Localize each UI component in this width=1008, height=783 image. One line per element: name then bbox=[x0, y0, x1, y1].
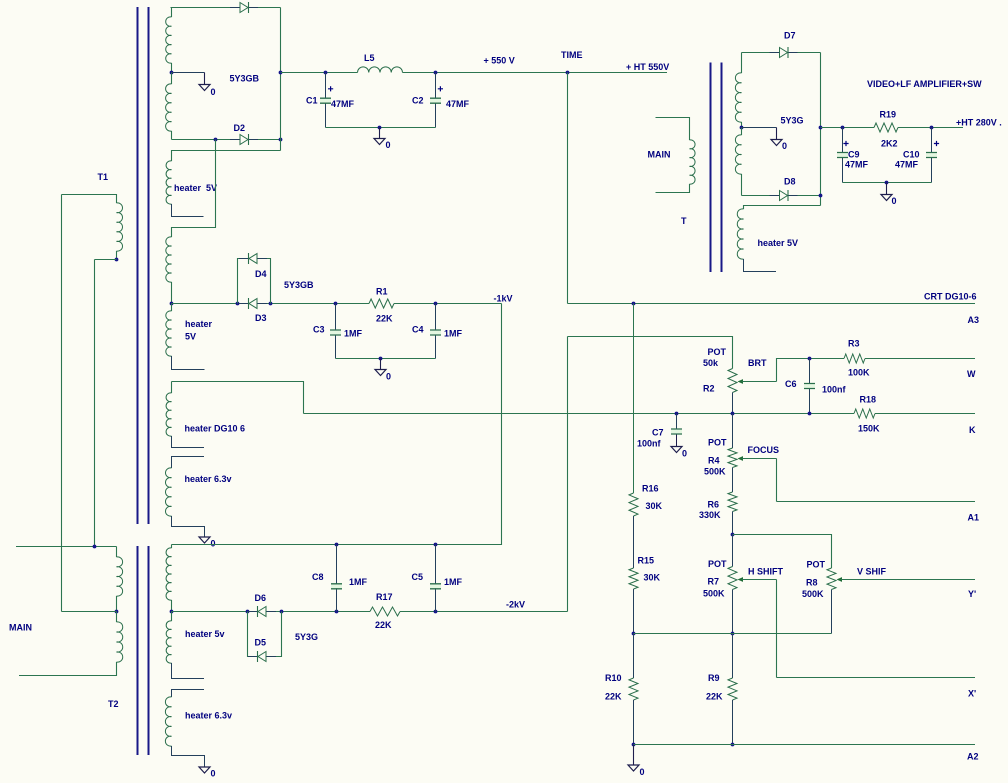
wire TIME net vertical bbox=[567, 73, 569, 304]
wire heater 5V bottom lead bbox=[172, 204, 204, 217]
wire heater DG10-6 leads bbox=[171, 382, 173, 394]
svg-text:C3: C3 bbox=[313, 325, 325, 335]
winding HT 550V secondary upper bbox=[166, 17, 172, 63]
wire MAIN primary bottom bbox=[656, 184, 690, 193]
svg-text:V SHIF: V SHIF bbox=[857, 567, 887, 577]
capacitor C4 leads bbox=[435, 304, 437, 331]
wire D2 branch down to -1kV winding bbox=[172, 140, 216, 238]
node T1 primary tap bbox=[115, 258, 119, 262]
capacitor C10 bbox=[926, 153, 937, 156]
resistor R6 bbox=[728, 492, 737, 512]
ground 0 at 550V center tap bbox=[199, 85, 210, 91]
node T2 primary tap bbox=[115, 610, 119, 614]
svg-text:30K: 30K bbox=[644, 573, 661, 583]
svg-text:5Y3GB: 5Y3GB bbox=[284, 280, 314, 290]
svg-text:1MF: 1MF bbox=[444, 577, 463, 587]
diode D5 bbox=[248, 656, 276, 658]
wire 5Y3GB cathode rail bbox=[280, 8, 282, 151]
wire C3 C4 ground row bbox=[336, 358, 436, 360]
wire R4 to R6 bbox=[732, 468, 734, 493]
wire D5 parallel branch bbox=[248, 612, 258, 657]
svg-text:150K: 150K bbox=[858, 424, 880, 434]
svg-text:Y': Y' bbox=[968, 589, 976, 599]
svg-text:0: 0 bbox=[782, 141, 787, 151]
svg-text:VIDEO+LF AMPLIFIER+SW: VIDEO+LF AMPLIFIER+SW bbox=[867, 79, 982, 89]
svg-text:R10: R10 bbox=[605, 673, 622, 683]
diode D3 bbox=[239, 303, 267, 305]
svg-text:0: 0 bbox=[386, 372, 391, 382]
node C3 top bbox=[334, 302, 338, 306]
winding HT 550V secondary lower bbox=[166, 84, 172, 131]
wire T2 tap row bbox=[62, 611, 117, 613]
svg-text:C4: C4 bbox=[412, 325, 424, 335]
svg-text:TIME: TIME bbox=[561, 50, 583, 60]
wire -2kV riser bbox=[567, 337, 569, 612]
svg-text:0: 0 bbox=[640, 767, 645, 777]
inductor L5 bbox=[358, 67, 403, 73]
potentiometer R2 bbox=[728, 369, 737, 393]
svg-text:BRT: BRT bbox=[748, 358, 767, 368]
capacitor C5 leads bbox=[435, 545, 437, 584]
potentiometer R2 wiper bbox=[738, 379, 744, 384]
node HT secondary center tap bbox=[170, 71, 174, 75]
node C6 top bbox=[808, 357, 812, 361]
wire T2 secondary tap lead bbox=[171, 600, 173, 612]
capacitor C3 leads bbox=[335, 304, 337, 331]
wire R15 bottom lead bbox=[633, 589, 635, 634]
capacitor C10 polarity + bbox=[934, 141, 939, 146]
node T2 secondary tap bbox=[170, 610, 174, 614]
svg-text:D7: D7 bbox=[784, 31, 796, 41]
node R4 chain top bbox=[731, 412, 735, 416]
node C9 C10 ground bbox=[885, 181, 889, 185]
wire +HT280 rail left bbox=[821, 127, 875, 129]
node C10 top bbox=[930, 126, 934, 130]
ground 0 at C3 C4 bbox=[380, 359, 382, 370]
svg-text:heater 5V: heater 5V bbox=[758, 238, 799, 248]
diode D2 (5Y3GB plate 2) bbox=[230, 139, 258, 141]
wire R10 bottom lead bbox=[633, 700, 635, 745]
svg-text:R16: R16 bbox=[642, 484, 659, 494]
potentiometer R8 wiper bbox=[837, 577, 843, 582]
svg-text:heater 6.3v: heater 6.3v bbox=[185, 711, 232, 721]
wire heater right bottom lead bbox=[744, 259, 777, 272]
potentiometer R4 bbox=[728, 448, 737, 468]
wire D4 parallel branch bbox=[238, 259, 249, 304]
wire heater 6.3v second bottom lead bbox=[172, 746, 205, 767]
svg-text:500K: 500K bbox=[802, 589, 824, 599]
capacitor C5 bbox=[430, 585, 441, 588]
wire left rail from T1 top bbox=[61, 195, 63, 612]
node TIME branch bbox=[566, 71, 570, 75]
potentiometer R7 wiper bbox=[738, 577, 744, 582]
node C1 top bbox=[324, 71, 328, 75]
svg-text:+ 550 V: + 550 V bbox=[484, 56, 515, 66]
svg-text:0: 0 bbox=[211, 87, 216, 97]
wire left rail from T1 tap bbox=[94, 260, 96, 547]
wire R10 top lead bbox=[633, 634, 635, 679]
svg-text:5Y3G: 5Y3G bbox=[295, 632, 318, 642]
capacitor C9 polarity + bbox=[843, 141, 848, 146]
wire heater second leads bbox=[171, 304, 173, 312]
node C5 top bbox=[434, 543, 438, 547]
diode D4 bbox=[239, 258, 267, 260]
node 550V output bbox=[279, 71, 283, 75]
winding T1 primary bbox=[117, 203, 123, 251]
svg-text:C5: C5 bbox=[412, 572, 424, 582]
resistor R17 bbox=[370, 607, 400, 616]
svg-text:W: W bbox=[967, 369, 976, 379]
wire FOCUS wiper to A1 row bbox=[776, 459, 778, 502]
wire T2 secondary lower leads bbox=[171, 612, 173, 622]
svg-text:R2: R2 bbox=[703, 384, 715, 394]
wire T1 tap to left rail bbox=[95, 259, 117, 261]
svg-text:D6: D6 bbox=[255, 593, 267, 603]
node -1kV winding output bbox=[170, 302, 174, 306]
svg-text:0: 0 bbox=[386, 140, 391, 150]
svg-text:D4: D4 bbox=[255, 269, 267, 279]
node MAIN junction bbox=[93, 545, 97, 549]
wire A1 row bbox=[777, 501, 976, 503]
wire R9 bottom lead bbox=[732, 700, 734, 745]
wire cathode to heater 5V right bbox=[744, 206, 821, 210]
svg-text:D2: D2 bbox=[234, 123, 246, 133]
wire K row right bbox=[875, 413, 975, 415]
svg-text:MAIN: MAIN bbox=[648, 150, 671, 160]
node C3 C4 ground bbox=[379, 357, 383, 361]
ground 0 at HT280 tap bbox=[771, 140, 782, 146]
svg-text:C9: C9 bbox=[848, 150, 860, 160]
capacitor C2 leads bbox=[435, 73, 437, 99]
svg-text:C6: C6 bbox=[785, 379, 797, 389]
wire HT secondary top lead bbox=[171, 8, 173, 18]
node C8 bottom bbox=[335, 610, 339, 614]
wire -2kV row left bbox=[172, 611, 371, 613]
node D3 anode bbox=[236, 302, 240, 306]
svg-text:+ HT 550V: + HT 550V bbox=[626, 62, 669, 72]
resistor R9 bbox=[728, 678, 737, 700]
diode D1 (5Y3GB plate 1) bbox=[230, 7, 258, 9]
wire W row right bbox=[865, 358, 975, 360]
svg-text:C7: C7 bbox=[652, 428, 664, 438]
wire secondary lower leads bbox=[171, 73, 173, 85]
wire cathode to heater 5V winding bbox=[172, 151, 281, 162]
svg-text:CRT DG10-6: CRT DG10-6 bbox=[924, 292, 977, 302]
wire -2kV row right bbox=[400, 611, 568, 613]
svg-text:-1kV: -1kV bbox=[494, 294, 513, 304]
wire heater DG10-6 top feed bbox=[172, 382, 304, 414]
resistor R15 bbox=[629, 568, 638, 589]
svg-text:heater 5V: heater 5V bbox=[174, 183, 217, 193]
wire X'' row bbox=[777, 677, 976, 679]
resistor R1 bbox=[369, 299, 394, 308]
capacitor C3 bbox=[330, 331, 341, 334]
wire top anode row bbox=[171, 7, 281, 9]
potentiometer R4 wiper bbox=[738, 456, 744, 461]
node D6 cathode bbox=[280, 610, 284, 614]
svg-text:47MF: 47MF bbox=[895, 160, 919, 170]
wire -1kV winding bottom lead bbox=[171, 282, 173, 304]
svg-text:5Y3GB: 5Y3GB bbox=[230, 74, 260, 84]
svg-text:22K: 22K bbox=[706, 692, 723, 702]
wire R16 chain bbox=[633, 304, 635, 494]
wire heater 6.3v bottom lead bbox=[172, 516, 205, 537]
resistor R10 bbox=[629, 678, 638, 700]
svg-text:R3: R3 bbox=[848, 339, 860, 349]
node R15 R10 junction bbox=[632, 632, 636, 636]
node C8 top bbox=[335, 543, 339, 547]
node R9 A2 junction bbox=[731, 743, 735, 747]
node C5 bottom bbox=[434, 610, 438, 614]
svg-text:0: 0 bbox=[682, 449, 687, 459]
svg-text:47MF: 47MF bbox=[446, 99, 470, 109]
svg-text:A1: A1 bbox=[968, 513, 980, 523]
capacitor C4 bbox=[430, 331, 441, 334]
node D2 anode branch bbox=[214, 138, 218, 142]
svg-text:+HT 280V .: +HT 280V . bbox=[956, 118, 1002, 128]
winding T2 primary lower bbox=[117, 622, 123, 662]
wire HT280 secondary tap lead bbox=[741, 122, 743, 128]
svg-text:D5: D5 bbox=[255, 638, 267, 648]
node C9 top bbox=[841, 126, 845, 130]
wire T1 primary bottom lead bbox=[116, 251, 118, 260]
svg-text:MAIN: MAIN bbox=[9, 623, 32, 633]
wire +550V rail bbox=[281, 72, 358, 74]
winding HT280 secondary lower bbox=[735, 135, 741, 174]
node HT280 center tap bbox=[740, 126, 744, 130]
wire T1 primary top bbox=[62, 195, 117, 204]
svg-text:R19: R19 bbox=[880, 110, 897, 120]
winding heater 6.3v second bbox=[165, 697, 171, 746]
ground 0 at C9 C10 bbox=[886, 183, 888, 195]
capacitor C9 bbox=[837, 153, 848, 156]
capacitor C8 bbox=[331, 585, 342, 588]
resistor R16 bbox=[629, 493, 638, 516]
svg-text:R9: R9 bbox=[708, 673, 720, 683]
wire -1kV row right bbox=[394, 303, 502, 305]
wire K row left bbox=[304, 413, 855, 415]
wire -2kV top row bbox=[172, 544, 502, 546]
capacitor C6 bbox=[804, 384, 815, 387]
svg-text:R7: R7 bbox=[708, 577, 720, 587]
svg-text:1MF: 1MF bbox=[444, 329, 463, 339]
wire +HT280 rail right bbox=[898, 127, 963, 129]
wire BRT wiper to W row bbox=[777, 359, 810, 382]
svg-text:heater 5v: heater 5v bbox=[185, 629, 225, 639]
svg-text:22K: 22K bbox=[605, 692, 622, 702]
svg-text:5Y3G: 5Y3G bbox=[781, 116, 804, 126]
svg-text:T: T bbox=[681, 216, 687, 226]
resistor R18 bbox=[854, 409, 875, 418]
wire T2 secondary top lead bbox=[171, 545, 173, 549]
svg-text:POT: POT bbox=[708, 347, 727, 357]
wire R8 bottom row bbox=[634, 633, 832, 635]
transformer T2 core bbox=[138, 546, 149, 755]
wire A2 row bbox=[634, 744, 976, 746]
wire 5Y3G cathode rail bbox=[820, 53, 822, 206]
diode D8 bbox=[770, 195, 798, 197]
wire D7 anode row bbox=[742, 52, 821, 54]
svg-text:C10: C10 bbox=[903, 150, 920, 160]
svg-text:47MF: 47MF bbox=[845, 160, 869, 170]
svg-text:30K: 30K bbox=[646, 501, 663, 511]
svg-text:0: 0 bbox=[211, 539, 216, 549]
svg-text:22K: 22K bbox=[376, 314, 393, 324]
node R16 chain top bbox=[632, 302, 636, 306]
svg-text:100K: 100K bbox=[848, 368, 870, 378]
svg-text:1MF: 1MF bbox=[349, 577, 368, 587]
svg-text:POT: POT bbox=[708, 438, 727, 448]
svg-text:R18: R18 bbox=[860, 395, 877, 405]
wire R6 bottom lead bbox=[732, 512, 734, 535]
wire C9 C10 ground row bbox=[843, 182, 932, 184]
svg-text:2K2: 2K2 bbox=[881, 139, 898, 149]
svg-text:T2: T2 bbox=[108, 699, 119, 709]
node D3 cathode bbox=[269, 302, 273, 306]
svg-text:R6: R6 bbox=[708, 500, 720, 510]
svg-text:D8: D8 bbox=[784, 177, 796, 187]
wire T2 primary tap to lower coil bbox=[116, 612, 118, 623]
svg-text:C1: C1 bbox=[306, 96, 318, 106]
svg-text:heater: heater bbox=[185, 319, 213, 329]
node D8 cathode bbox=[819, 194, 823, 198]
capacitor C7 leads bbox=[676, 414, 678, 430]
winding MAIN primary bbox=[690, 140, 696, 184]
node C6 bottom bbox=[808, 412, 812, 416]
svg-text:X': X' bbox=[968, 689, 976, 699]
svg-text:330K: 330K bbox=[699, 510, 721, 520]
winding -1kV secondary bbox=[166, 237, 172, 282]
capacitor C9 leads bbox=[842, 128, 844, 153]
ground 0 below R10 bbox=[633, 745, 635, 766]
svg-text:FOCUS: FOCUS bbox=[748, 445, 780, 455]
transformer T1 core bbox=[138, 7, 149, 524]
svg-text:R17: R17 bbox=[376, 592, 393, 602]
svg-text:0: 0 bbox=[211, 769, 216, 779]
wire to V SHIF pot R8 bbox=[733, 535, 832, 569]
svg-text:R15: R15 bbox=[638, 556, 655, 566]
wire HT280 lower leads bbox=[741, 128, 743, 136]
svg-text:22K: 22K bbox=[375, 620, 392, 630]
node D2 cathode bbox=[279, 138, 283, 142]
ground 0 at C7 bbox=[671, 447, 682, 453]
winding heater 6.3v bbox=[165, 468, 171, 516]
wire heater 6.3v top stub bbox=[172, 457, 205, 469]
resistor R3 bbox=[844, 354, 865, 363]
wire T2 primary bottom lead bbox=[19, 662, 117, 676]
resistor R19 bbox=[874, 123, 898, 132]
svg-text:100nf: 100nf bbox=[822, 385, 847, 395]
node R8 feed junction bbox=[731, 533, 735, 537]
diode D6 bbox=[248, 611, 276, 613]
svg-text:1MF: 1MF bbox=[344, 329, 363, 339]
potentiometer R8 bbox=[827, 568, 836, 590]
capacitor C1 bbox=[320, 99, 331, 102]
wire R8 bottom lead bbox=[831, 590, 833, 634]
wire -1kV to -2kV rail corner bbox=[501, 304, 503, 546]
wire R4 top lead bbox=[732, 414, 734, 449]
capacitor C7 bbox=[671, 430, 682, 433]
svg-text:C8: C8 bbox=[312, 572, 324, 582]
winding HT280 secondary upper bbox=[735, 73, 741, 122]
svg-text:heater DG10 6: heater DG10 6 bbox=[185, 424, 246, 434]
winding T2 secondary upper bbox=[166, 548, 171, 600]
svg-text:5V: 5V bbox=[185, 332, 196, 342]
svg-text:H SHIFT: H SHIFT bbox=[748, 567, 784, 577]
svg-text:K: K bbox=[969, 425, 976, 435]
capacitor C2 bbox=[430, 99, 441, 102]
wire T2 primary top lead bbox=[116, 547, 118, 558]
svg-text:-2kV: -2kV bbox=[506, 600, 525, 610]
wire heater 6.3v second top stub bbox=[172, 690, 205, 698]
wire box row to BRT pot bbox=[568, 337, 733, 369]
wire HT280 secondary top lead bbox=[741, 53, 743, 74]
capacitor C2 polarity + bbox=[438, 86, 443, 91]
svg-text:50k: 50k bbox=[703, 358, 719, 368]
capacitor C1 polarity + bbox=[328, 86, 333, 91]
winding heater 5V second bbox=[166, 311, 172, 356]
wire -1kV row left bbox=[172, 303, 370, 305]
winding heater DG10 6 bbox=[166, 393, 171, 436]
wire MAIN input upper stub bbox=[16, 546, 117, 548]
capacitor C8 leads bbox=[336, 545, 338, 584]
capacitor C6 leads bbox=[809, 359, 811, 384]
wire T2 primary tap lead bbox=[116, 596, 118, 612]
svg-text:L5: L5 bbox=[364, 53, 375, 63]
wire R7 top lead bbox=[732, 535, 734, 567]
svg-text:POT: POT bbox=[708, 559, 727, 569]
wire H SHIFT wiper to X row bbox=[776, 580, 778, 678]
svg-text:100nf: 100nf bbox=[637, 439, 662, 449]
winding heater 5V (5Y3GB) bbox=[166, 161, 171, 204]
wire HT secondary to center tap bbox=[171, 63, 173, 73]
svg-text:R8: R8 bbox=[806, 578, 818, 588]
svg-text:500K: 500K bbox=[703, 589, 725, 599]
svg-text:T1: T1 bbox=[98, 172, 109, 182]
winding T2 primary upper bbox=[117, 557, 123, 596]
winding T2 secondary lower bbox=[166, 621, 171, 663]
node C4 top bbox=[434, 302, 438, 306]
wire R16 to R15 bbox=[633, 516, 635, 568]
svg-text:0: 0 bbox=[892, 196, 897, 206]
transformer T core bbox=[711, 63, 722, 273]
diode D7 bbox=[770, 52, 798, 54]
capacitor C10 leads bbox=[931, 128, 933, 153]
svg-text:heater 6.3v: heater 6.3v bbox=[185, 474, 232, 484]
wire W row left bbox=[777, 358, 845, 360]
svg-text:47MF: 47MF bbox=[331, 99, 355, 109]
wire bottom anode row bbox=[172, 139, 281, 141]
node filter ground bbox=[378, 126, 382, 130]
svg-text:R1: R1 bbox=[376, 287, 388, 297]
wire R7 bottom lead bbox=[732, 590, 734, 634]
node C7 top bbox=[675, 412, 679, 416]
node C2 top bbox=[434, 71, 438, 75]
wire center tap to ground stub bbox=[172, 72, 205, 74]
svg-text:R4: R4 bbox=[708, 456, 720, 466]
node D6 anode bbox=[246, 610, 250, 614]
node HT280 output upper bbox=[819, 126, 823, 130]
svg-text:C2: C2 bbox=[412, 96, 424, 106]
svg-text:A3: A3 bbox=[968, 315, 980, 325]
svg-text:POT: POT bbox=[807, 560, 826, 570]
svg-text:D3: D3 bbox=[255, 313, 267, 323]
wire R9 top lead bbox=[732, 634, 734, 679]
svg-text:500K: 500K bbox=[704, 467, 726, 477]
wire C1 C2 ground row bbox=[326, 127, 436, 129]
wire MAIN primary top bbox=[656, 118, 690, 141]
ground 0 at heater 6.3v second bbox=[199, 767, 210, 773]
